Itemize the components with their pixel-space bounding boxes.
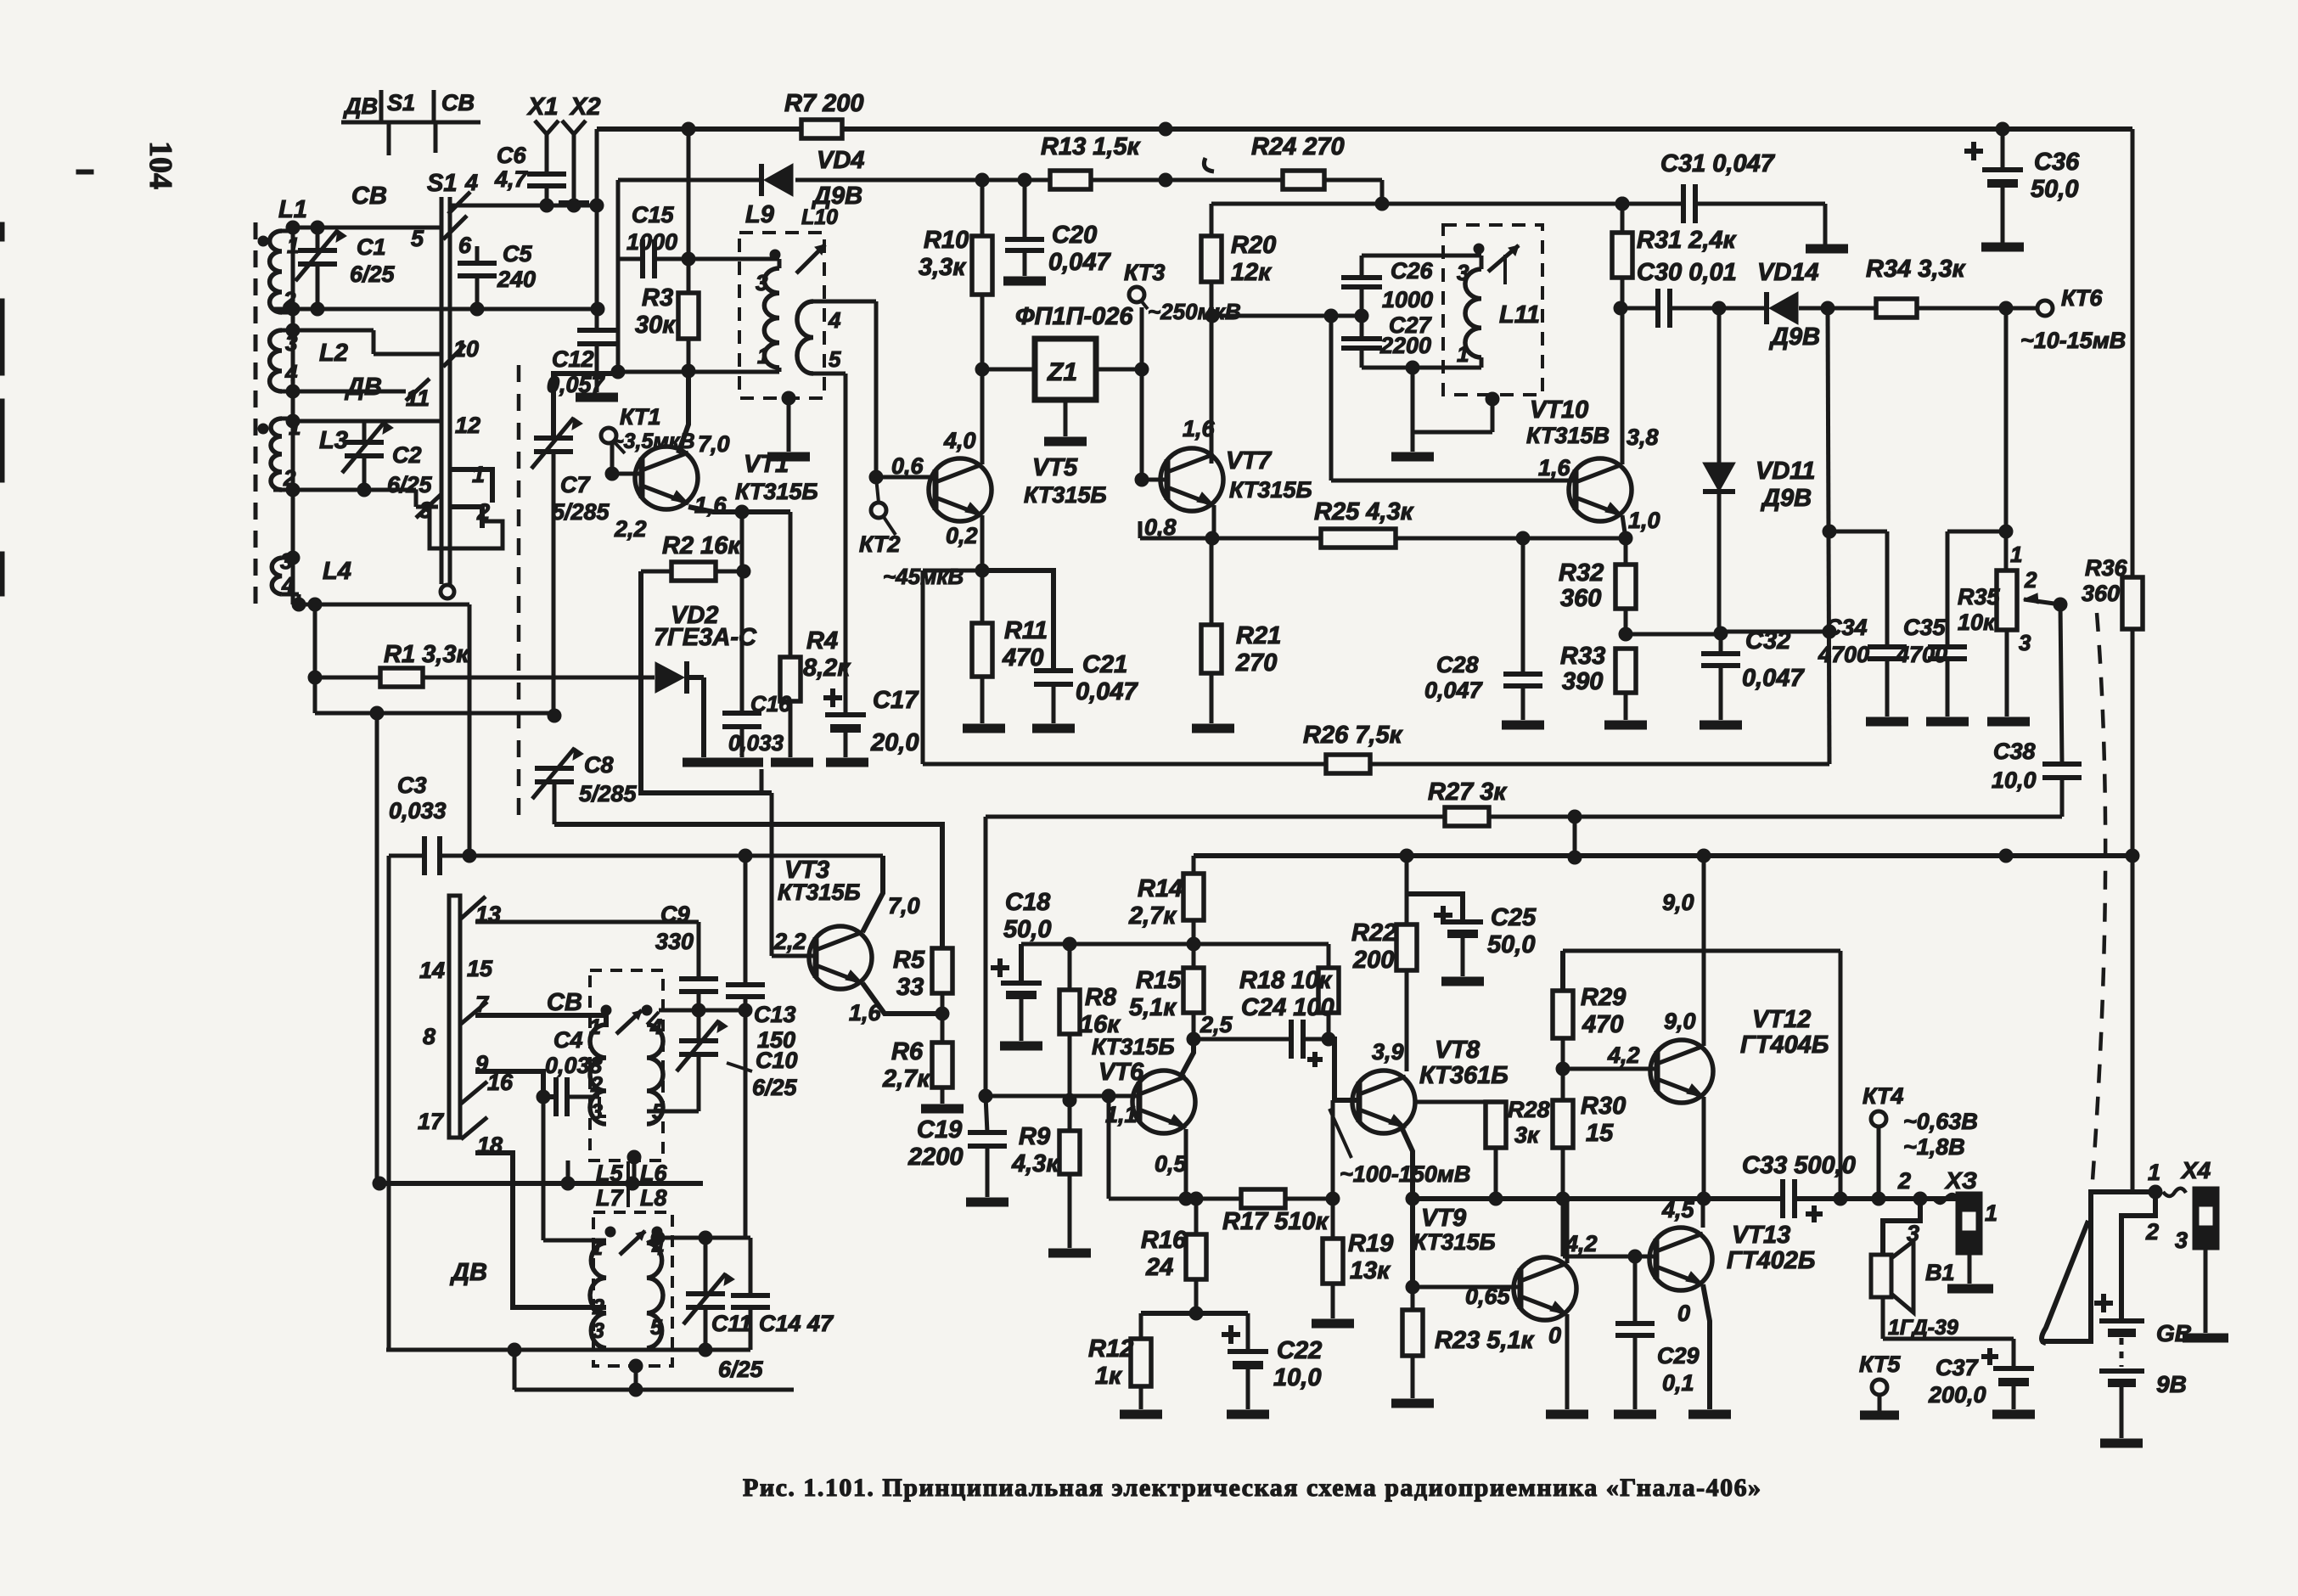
VT8 value 3,9 (1372, 1039, 1404, 1065)
capacitor C26 1000 (1341, 256, 1434, 314)
svg-text:VT12: VT12 (1752, 1006, 1811, 1033)
capacitor C18 50,0 electrolytic (991, 889, 1051, 1041)
svg-text:1: 1 (2148, 1160, 2160, 1185)
svg-text:ДВ: ДВ (343, 93, 378, 119)
vertical x1161 to VT6 base node (979, 817, 992, 1103)
svg-text:150: 150 (757, 1027, 795, 1053)
svg-text:R1 3,3к: R1 3,3к (384, 641, 469, 668)
svg-text:Д9В: Д9В (1768, 323, 1820, 351)
L5/L6 centre tap (627, 1150, 641, 1183)
caption (743, 1474, 1762, 1502)
svg-text:R4: R4 (806, 627, 838, 655)
ground under C22 (1227, 1410, 1269, 1419)
resistor R4 8,2к (780, 512, 851, 757)
svg-text:R10: R10 (924, 227, 969, 254)
variable capacitor C7 5/285 (531, 365, 625, 716)
svg-text:КТ6: КТ6 (2061, 285, 2103, 311)
dashed link R35 wiper to power switch (2090, 613, 2105, 1214)
capacitor C6 4,7 (494, 143, 566, 205)
ground under VD2 (683, 758, 725, 767)
svg-text:L7: L7 (596, 1185, 624, 1211)
ground under C16 (721, 758, 763, 767)
svg-text:Д9В: Д9В (1760, 485, 1812, 512)
ground under battery (2100, 1439, 2143, 1448)
drop to bottom rail (513, 1350, 517, 1390)
connector X3 (1897, 1167, 1997, 1284)
antenna bus vertical (286, 221, 300, 604)
wire L4 bottom (292, 594, 469, 611)
variable capacitor C8 5/285 (532, 709, 638, 824)
svg-text:470: 470 (1582, 1011, 1623, 1038)
ground under R9 (1048, 1249, 1091, 1258)
svg-text:КТ5: КТ5 (1859, 1352, 1901, 1377)
wire contact9 to C4 (475, 1071, 556, 1104)
transformer L7/L8 dashed box (593, 1160, 672, 1366)
wire y364 common (273, 302, 604, 316)
VT3 collector wire (862, 856, 883, 932)
svg-text:КТ315Б: КТ315Б (1413, 1229, 1496, 1255)
band label СВ lower (547, 989, 582, 1016)
transistor VT5 КТ315Б (929, 454, 1107, 521)
contact 1 lead (452, 469, 492, 503)
svg-text:VD14: VD14 (1757, 259, 1819, 286)
transistor VT9 КТ315Б (1413, 1205, 1576, 1320)
L11 tap to ground (1413, 368, 1499, 452)
wire L5 pins 2-3 bridge (599, 1097, 606, 1116)
VT1 collector wire (678, 371, 688, 453)
resistor R8 16к (1059, 944, 1121, 1107)
test point KT6 ~10-15мВ (2020, 285, 2126, 353)
svg-text:2,7к: 2,7к (882, 1065, 930, 1093)
svg-text:8,2к: 8,2к (803, 655, 851, 682)
svg-text:C2: C2 (392, 442, 422, 468)
wire contact18 to L7 pin2 (475, 1153, 606, 1307)
variable capacitor C10 6/25 (677, 1010, 798, 1111)
capacitor C27 2200 (1341, 312, 1433, 368)
ground under R12 (1120, 1410, 1162, 1419)
svg-text:~0,63В: ~0,63В (1903, 1109, 1978, 1134)
svg-text:0: 0 (1677, 1301, 1690, 1326)
switch S1 slider (427, 170, 457, 598)
svg-text:C9: C9 (660, 902, 690, 927)
inductor L9 (745, 201, 780, 368)
svg-text:9В: 9В (2156, 1371, 2187, 1397)
svg-text:15: 15 (1586, 1120, 1614, 1147)
svg-text:3,3к: 3,3к (919, 254, 966, 281)
ground under R21 (1192, 724, 1234, 733)
VT10 emitter wire (1619, 515, 1632, 545)
svg-text:C18: C18 (1005, 889, 1051, 916)
transistor VT12 ГТ404Б (1650, 1006, 1829, 1103)
svg-text:0,5: 0,5 (1155, 1151, 1188, 1177)
svg-text:240: 240 (497, 267, 536, 292)
VT9 values 4,2 0,65 0 (1465, 1231, 1598, 1348)
svg-text:7,0: 7,0 (888, 893, 920, 919)
ground under R11 (963, 724, 1005, 733)
svg-text:4,0: 4,0 (943, 428, 976, 453)
svg-text:C4: C4 (553, 1027, 583, 1053)
VT10 values 3,8 1,6 1,0 (1538, 424, 1660, 533)
resistor R7 200 (784, 90, 864, 138)
print mark hook (1204, 158, 1214, 171)
svg-text:0,2: 0,2 (946, 523, 978, 548)
svg-text:R26 7,5к: R26 7,5к (1303, 722, 1403, 749)
contact pad rectangle (430, 508, 503, 548)
test point KT2 ~45мкВ (859, 477, 964, 589)
variable capacitor C2 6/25 (342, 421, 433, 497)
svg-text:390: 390 (1562, 668, 1603, 695)
svg-text:R8: R8 (1085, 984, 1117, 1011)
ground under C28 (1502, 721, 1544, 730)
svg-text:Х2: Х2 (569, 93, 600, 121)
wiper wire down to C38 (2060, 604, 2062, 764)
ground under C19 (966, 1198, 1009, 1207)
resistor R22 200 (1351, 856, 1417, 1071)
resistor R20 12к (1201, 204, 1276, 464)
VT12 base wire (1563, 1067, 1657, 1071)
svg-text:СВ: СВ (547, 989, 582, 1016)
resistor R9 4,3к (1011, 1100, 1080, 1248)
svg-text:R35: R35 (1958, 584, 2001, 610)
supply down-lead to switch (2131, 856, 2135, 1192)
capacitor C4 0,033 (545, 1027, 603, 1116)
wire C27 to L11 bottom (1362, 357, 1481, 374)
svg-text:330: 330 (655, 929, 694, 954)
wire y240 row (1211, 197, 1629, 211)
capacitor C12 0,057 (547, 309, 616, 397)
svg-text:R3: R3 (642, 284, 673, 312)
svg-text:5: 5 (650, 1316, 663, 1340)
svg-text:1: 1 (287, 233, 299, 258)
connector X4 (2145, 1157, 2219, 1333)
capacitor C31 0,047 (1622, 150, 1825, 244)
svg-text:КТ315Б: КТ315Б (1024, 482, 1107, 508)
svg-text:R33: R33 (1560, 643, 1605, 670)
capacitor C25 50,0 electrolytic (1407, 894, 1537, 976)
value callout ~100-150мВ (1329, 1109, 1470, 1187)
ground under C12 (576, 393, 618, 402)
svg-text:C29: C29 (1657, 1343, 1700, 1368)
svg-text:R21: R21 (1236, 622, 1281, 649)
wire C3 to VT3 collector (440, 849, 883, 863)
ground under C17 (826, 758, 868, 767)
VT7 emitter wire to R25 row (1140, 505, 1321, 545)
wire S1 bottom vertical (468, 604, 472, 856)
trim arrow in L9 box (796, 244, 825, 273)
svg-text:L1: L1 (278, 196, 307, 223)
wire y626 to C34/C35 (1829, 525, 2013, 538)
resistor R16 24 (1141, 1199, 1206, 1320)
wire X2/C6 to S1 contact 4 (450, 199, 604, 212)
VT5 emitter node wires (923, 515, 989, 764)
svg-text:0,033: 0,033 (728, 730, 784, 756)
VT10 base feed riser (1331, 316, 1576, 480)
svg-text:S1: S1 (387, 90, 415, 115)
inductor L8 (647, 1227, 664, 1348)
ground under C32 (1700, 721, 1742, 730)
svg-text:50,0: 50,0 (2031, 176, 2078, 203)
bottom rail segment (514, 1383, 794, 1396)
capacitor C28 0,047 (1424, 538, 1542, 720)
svg-text:R2 16к: R2 16к (662, 532, 741, 559)
wire L6 pin4 row (647, 1003, 752, 1025)
lower contact strokes (461, 896, 487, 1139)
wire to VT8 base (1329, 1039, 1357, 1100)
svg-text:2: 2 (592, 1295, 604, 1319)
svg-text:C20: C20 (1052, 222, 1097, 249)
transistor VT7 КТ315Б (1160, 447, 1312, 511)
svg-text:11: 11 (406, 385, 430, 411)
capacitor C22 10,0 electrolytic (1222, 1313, 1322, 1409)
ground under C18 (1000, 1042, 1042, 1051)
variable capacitor C11 6/25 (683, 1238, 764, 1382)
contact 2 lead (452, 507, 482, 528)
wire L6 pin5 (647, 1110, 699, 1114)
wire bus drop to VD4 row (616, 180, 621, 372)
svg-text:5/285: 5/285 (552, 499, 610, 525)
wire R3 bottom to L9 bottom (618, 368, 779, 372)
wire R32/R33 tap to C32 (1626, 632, 1721, 637)
page number 104 (rotated) (143, 141, 178, 189)
svg-text:R5: R5 (893, 947, 925, 974)
svg-text:C31 0,047: C31 0,047 (1660, 150, 1776, 177)
ground under C21 (1032, 724, 1075, 733)
svg-text:1: 1 (2010, 542, 2022, 567)
svg-text:R9: R9 (1019, 1123, 1050, 1150)
inductor L3 (258, 414, 348, 491)
ground under VT9 (1546, 1410, 1588, 1419)
VT12 emitter riser (1702, 856, 1706, 1046)
svg-text:50,0: 50,0 (1487, 931, 1535, 958)
svg-text:50,0: 50,0 (1003, 916, 1051, 943)
svg-text:4,2: 4,2 (1607, 1042, 1640, 1068)
resistor R10 3,3к (919, 180, 992, 436)
svg-text:R25 4,3к: R25 4,3к (1314, 498, 1414, 525)
switch S1 lower slider (449, 896, 460, 1138)
VT1 emitter node (688, 505, 790, 519)
svg-text:ГТ404Б: ГТ404Б (1740, 1031, 1829, 1059)
svg-text:6/25: 6/25 (718, 1357, 764, 1382)
diode VD2 7ГЕ3А-С (654, 602, 757, 757)
svg-text:C22: C22 (1277, 1337, 1322, 1364)
capacitor C5 240 (458, 241, 536, 309)
svg-text:6/25: 6/25 (752, 1075, 798, 1100)
svg-text:2200: 2200 (907, 1144, 964, 1171)
volume pot R35 10к (1958, 308, 2037, 717)
svg-text:КТ315Б: КТ315Б (778, 879, 861, 905)
dashed tuning gang link (517, 365, 521, 819)
ground under C34 (1866, 717, 1908, 727)
test point KT4 (1863, 1083, 1978, 1199)
diode VD11 Д9В (1703, 308, 1815, 640)
svg-text:КТ315Б: КТ315Б (1092, 1034, 1175, 1059)
svg-text:200,0: 200,0 (1928, 1382, 1986, 1408)
svg-text:VT9: VT9 (1421, 1205, 1466, 1232)
L9 box centre tap to ground (767, 391, 810, 457)
svg-text:C14 47: C14 47 (759, 1311, 834, 1336)
svg-text:7ГЕ3А-С: 7ГЕ3А-С (654, 624, 757, 651)
svg-text:1: 1 (757, 343, 769, 368)
svg-text:24: 24 (1145, 1254, 1173, 1281)
svg-text:2: 2 (2145, 1219, 2159, 1245)
VT9 collector wire (1565, 1199, 1570, 1263)
svg-text:5/285: 5/285 (579, 781, 638, 806)
svg-text:R19: R19 (1348, 1230, 1393, 1257)
Z1 input wire (975, 362, 1035, 376)
feedback wire to R17 (1107, 1096, 1111, 1199)
svg-text:R22: R22 (1351, 919, 1396, 947)
svg-text:3: 3 (2175, 1228, 2188, 1253)
Z1 output wire (1096, 362, 1149, 376)
svg-text:КТ3: КТ3 (1124, 260, 1165, 285)
capacitor C13 150 (726, 856, 796, 1238)
supply rail y1008 (1194, 849, 2132, 863)
output rail y1412 (1413, 1192, 1783, 1205)
svg-text:R13 1,5к: R13 1,5к (1041, 133, 1141, 160)
wire contact13 to C9 (475, 920, 699, 924)
speaker return wire (1883, 1337, 2014, 1341)
VT7 base wire (1135, 473, 1167, 486)
ground under C37 (1992, 1410, 2035, 1419)
VT6 collector wire (1182, 1039, 1194, 1075)
svg-text:L2: L2 (319, 340, 348, 367)
svg-text:VT8: VT8 (1435, 1037, 1480, 1064)
wire L10 pin5 to C17 column (813, 374, 846, 715)
svg-text:R24 270: R24 270 (1251, 133, 1345, 160)
wire L10 pin4 to VT5 base node (813, 301, 876, 477)
resistor R15 5,1к (1129, 944, 1204, 1046)
svg-text:3: 3 (280, 548, 293, 574)
svg-text:13к: 13к (1350, 1257, 1391, 1284)
svg-text:R7 200: R7 200 (784, 90, 864, 117)
contact numbers 4 5 6 10 11 12 1 2 3 (406, 170, 490, 525)
resistor R11 470 (972, 570, 1048, 723)
switch to battery wiring (2041, 1185, 2162, 1341)
ground under X3 (1947, 1284, 1993, 1294)
svg-text:5: 5 (411, 226, 424, 251)
VT5 values 4,0 0,6 0,2 (891, 428, 978, 548)
svg-text:14: 14 (419, 958, 445, 983)
VT6 values 1,1 0,5 (1105, 1102, 1188, 1177)
antenna X2 (562, 93, 600, 205)
VT6 emitter wire (1184, 1129, 1188, 1199)
svg-text:L10: L10 (801, 205, 838, 229)
svg-text:R34 3,3к: R34 3,3к (1866, 256, 1966, 283)
svg-text:C34: C34 (1825, 615, 1868, 640)
resistor R21 270 (1201, 538, 1281, 723)
resistor R18 10к (1239, 944, 1339, 1046)
svg-text:10,0: 10,0 (1273, 1364, 1321, 1391)
transistor VT13 ГТ402Б (1649, 1222, 1815, 1290)
VT12 values 9,0 9,0 4,2 (1607, 890, 1696, 1068)
svg-text:0,047: 0,047 (1742, 665, 1805, 692)
VT1 values 7,0 2,2 1,6 (614, 431, 730, 542)
lower contact numbers (418, 902, 514, 1158)
VT3 base wire (772, 954, 816, 958)
svg-text:4: 4 (464, 170, 478, 195)
transistor VT6 КТ315Б (1092, 1034, 1195, 1133)
wire y840 to C8/C7 column (315, 706, 554, 720)
ground under C25 (1441, 977, 1484, 986)
svg-text:C1: C1 (357, 234, 386, 260)
svg-text:КТ315Б: КТ315Б (1229, 477, 1312, 503)
top supply bus (597, 122, 2132, 309)
capacitor C24 100 (1194, 994, 1334, 1067)
svg-text:C24 100: C24 100 (1241, 994, 1334, 1021)
transformer L9/L10 dashed box (739, 233, 824, 398)
svg-text:1ГД-39: 1ГД-39 (1888, 1316, 1958, 1340)
L7/L8 tap (629, 1359, 643, 1390)
svg-text:СВ: СВ (441, 90, 475, 115)
svg-text:C28: C28 (1436, 652, 1479, 677)
capacitor C38 10,0 (1992, 739, 2082, 817)
resistor R32 360 (1559, 538, 1636, 641)
svg-text:GВ: GВ (2156, 1320, 2192, 1346)
svg-text:0: 0 (1548, 1323, 1561, 1348)
resistor R5 33 (893, 947, 952, 1014)
svg-text:C35: C35 (1903, 615, 1947, 640)
wire to L7 pin1 (543, 1097, 606, 1240)
VT13 collector riser (1701, 1199, 1705, 1228)
trim arrow in L7/L8 box (620, 1231, 645, 1255)
capacitor C36 50,0 electrolytic (1964, 129, 2080, 243)
R35 wiper arrow (2024, 593, 2067, 611)
ground under C36 (1981, 243, 2024, 252)
svg-text:VT1: VT1 (744, 451, 789, 478)
VT12 collector riser (1702, 1097, 1706, 1199)
svg-text:10к: 10к (1958, 610, 1996, 635)
capacitor C17 20,0 electrolytic (823, 687, 919, 757)
svg-text:2200: 2200 (1379, 333, 1431, 358)
capacitor C32 0,047 (1701, 627, 1805, 720)
svg-text:9,0: 9,0 (1664, 1009, 1696, 1034)
svg-text:Рис. 1.101. Принципиальная эле: Рис. 1.101. Принципиальная электрическая… (743, 1474, 1762, 1502)
svg-text:VT10: VT10 (1530, 396, 1588, 424)
svg-text:R28: R28 (1508, 1097, 1550, 1122)
ground under R19 (1312, 1319, 1354, 1329)
transistor VT10 КТ315В (1526, 396, 1632, 521)
svg-text:C30 0,01: C30 0,01 (1637, 259, 1737, 286)
inductor L6 (642, 1005, 665, 1124)
svg-text:VT5: VT5 (1032, 454, 1078, 481)
svg-text:4,2: 4,2 (1565, 1231, 1598, 1256)
ground under R33 (1604, 721, 1647, 730)
wire L3 bottom / C2 bottom to contact 3 (273, 483, 438, 507)
resistor R36 360 (2082, 129, 2143, 863)
svg-text:R32: R32 (1559, 559, 1604, 587)
resistor R33 390 (1560, 643, 1636, 720)
svg-text:КТ361Б: КТ361Б (1419, 1062, 1509, 1089)
test point KT5 (1859, 1352, 1901, 1415)
svg-text:3: 3 (756, 270, 768, 295)
svg-text:КТ1: КТ1 (620, 404, 660, 430)
svg-text:~100-150мВ: ~100-150мВ (1340, 1161, 1470, 1187)
svg-text:C37: C37 (1936, 1355, 1980, 1380)
capacitor C15 1000 (618, 202, 695, 278)
capacitor C29 0,1 (1615, 1256, 1700, 1409)
band label ДВ (344, 374, 382, 401)
svg-text:КТ315Б: КТ315Б (735, 479, 818, 504)
page edge marks (0, 170, 93, 596)
svg-text:4,7: 4,7 (494, 166, 529, 192)
svg-text:1,6: 1,6 (1183, 416, 1216, 441)
trim arrow in L5/L6 box (616, 1010, 642, 1034)
capacitor C20 0,047 (1003, 173, 1111, 281)
svg-text:1: 1 (1457, 341, 1469, 367)
bootstrap wire y1120 (1563, 949, 1840, 953)
inductor L1 (258, 183, 387, 312)
value 2,5 (1200, 1012, 1233, 1037)
